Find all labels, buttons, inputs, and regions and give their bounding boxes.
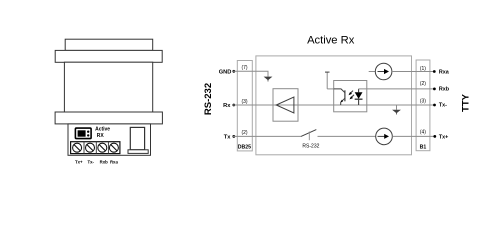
- wire Tx middle: [318, 135, 376, 137]
- wire Tx to pin 4: [392, 135, 435, 137]
- svg-text:Rxa: Rxa: [110, 160, 118, 165]
- supply terminal T: [325, 72, 334, 89]
- svg-text:Tx-: Tx-: [439, 103, 447, 109]
- module terminal section: [68, 124, 151, 155]
- svg-text:(3): (3): [420, 99, 426, 105]
- svg-text:RX: RX: [97, 133, 105, 139]
- LED D1: [355, 89, 363, 105]
- svg-text:Rxb: Rxb: [100, 160, 108, 165]
- svg-text:Rxa: Rxa: [439, 70, 450, 76]
- light arrows: [349, 91, 355, 100]
- switch RS-232 blade: [301, 130, 316, 137]
- svg-text:DB25: DB25: [238, 144, 251, 150]
- current source I1: [369, 63, 392, 80]
- svg-text:Tx: Tx: [224, 134, 231, 140]
- module main body: [64, 62, 152, 112]
- svg-text:GND: GND: [219, 69, 232, 75]
- node Rxa dot: [433, 70, 436, 73]
- wire LED anode rail to pin 2: [359, 88, 435, 90]
- terminal block: [71, 142, 120, 154]
- screw terminal 4: [109, 143, 118, 152]
- screw terminal 3: [98, 143, 107, 152]
- svg-text:Rxb: Rxb: [439, 86, 450, 92]
- svg-text:B1: B1: [420, 144, 427, 150]
- wire I1 to pin 1: [392, 71, 434, 73]
- svg-text:(3): (3): [241, 99, 247, 105]
- module upper flange: [55, 50, 162, 62]
- svg-text:(2): (2): [420, 81, 426, 87]
- screw terminal 1: [73, 143, 82, 152]
- buffer U1 box: [273, 89, 298, 122]
- screw terminal 2: [86, 143, 95, 152]
- side connector jack: [128, 127, 148, 153]
- module lower flange: [55, 112, 162, 124]
- phototransistor emitter with arrow: [340, 98, 345, 105]
- ground (TTY side): [392, 105, 401, 114]
- circuit boundary box: [256, 56, 412, 155]
- svg-text:Active: Active: [95, 126, 110, 132]
- svg-text:RS-232: RS-232: [302, 144, 319, 150]
- node Tx- dot: [433, 104, 436, 107]
- connector DB25: [237, 61, 252, 151]
- phototransistor collector lead: [334, 89, 345, 93]
- svg-text:(7): (7): [241, 65, 247, 71]
- switch leader line: [308, 132, 310, 141]
- DIP switch S1: [75, 128, 91, 139]
- connector B1: [416, 60, 430, 151]
- svg-text:Tx+: Tx+: [439, 134, 448, 140]
- svg-text:TTY: TTY: [460, 93, 471, 112]
- node Tx+ dot: [433, 135, 436, 138]
- optocoupler U2 box: [334, 81, 367, 112]
- phototransistor base bar: [344, 90, 346, 101]
- wire Tx left: [232, 135, 301, 137]
- svg-text:Active Rx: Active Rx: [307, 34, 355, 46]
- wire Rx / LED cathode rail: [232, 104, 435, 106]
- svg-text:(4): (4): [420, 130, 426, 136]
- svg-text:Tx+: Tx+: [75, 160, 83, 165]
- current source I2: [376, 128, 393, 145]
- node Rxb dot: [433, 88, 436, 91]
- ground (RS-232 side): [264, 77, 273, 81]
- svg-text:RS-232: RS-232: [203, 83, 214, 115]
- wire GND: [232, 71, 268, 77]
- svg-text:Tx-: Tx-: [87, 160, 94, 165]
- buffer U1 triangle: [276, 97, 294, 113]
- module front view: top cap: [65, 39, 153, 50]
- svg-text:(2): (2): [241, 130, 247, 136]
- svg-text:Rx: Rx: [223, 103, 231, 109]
